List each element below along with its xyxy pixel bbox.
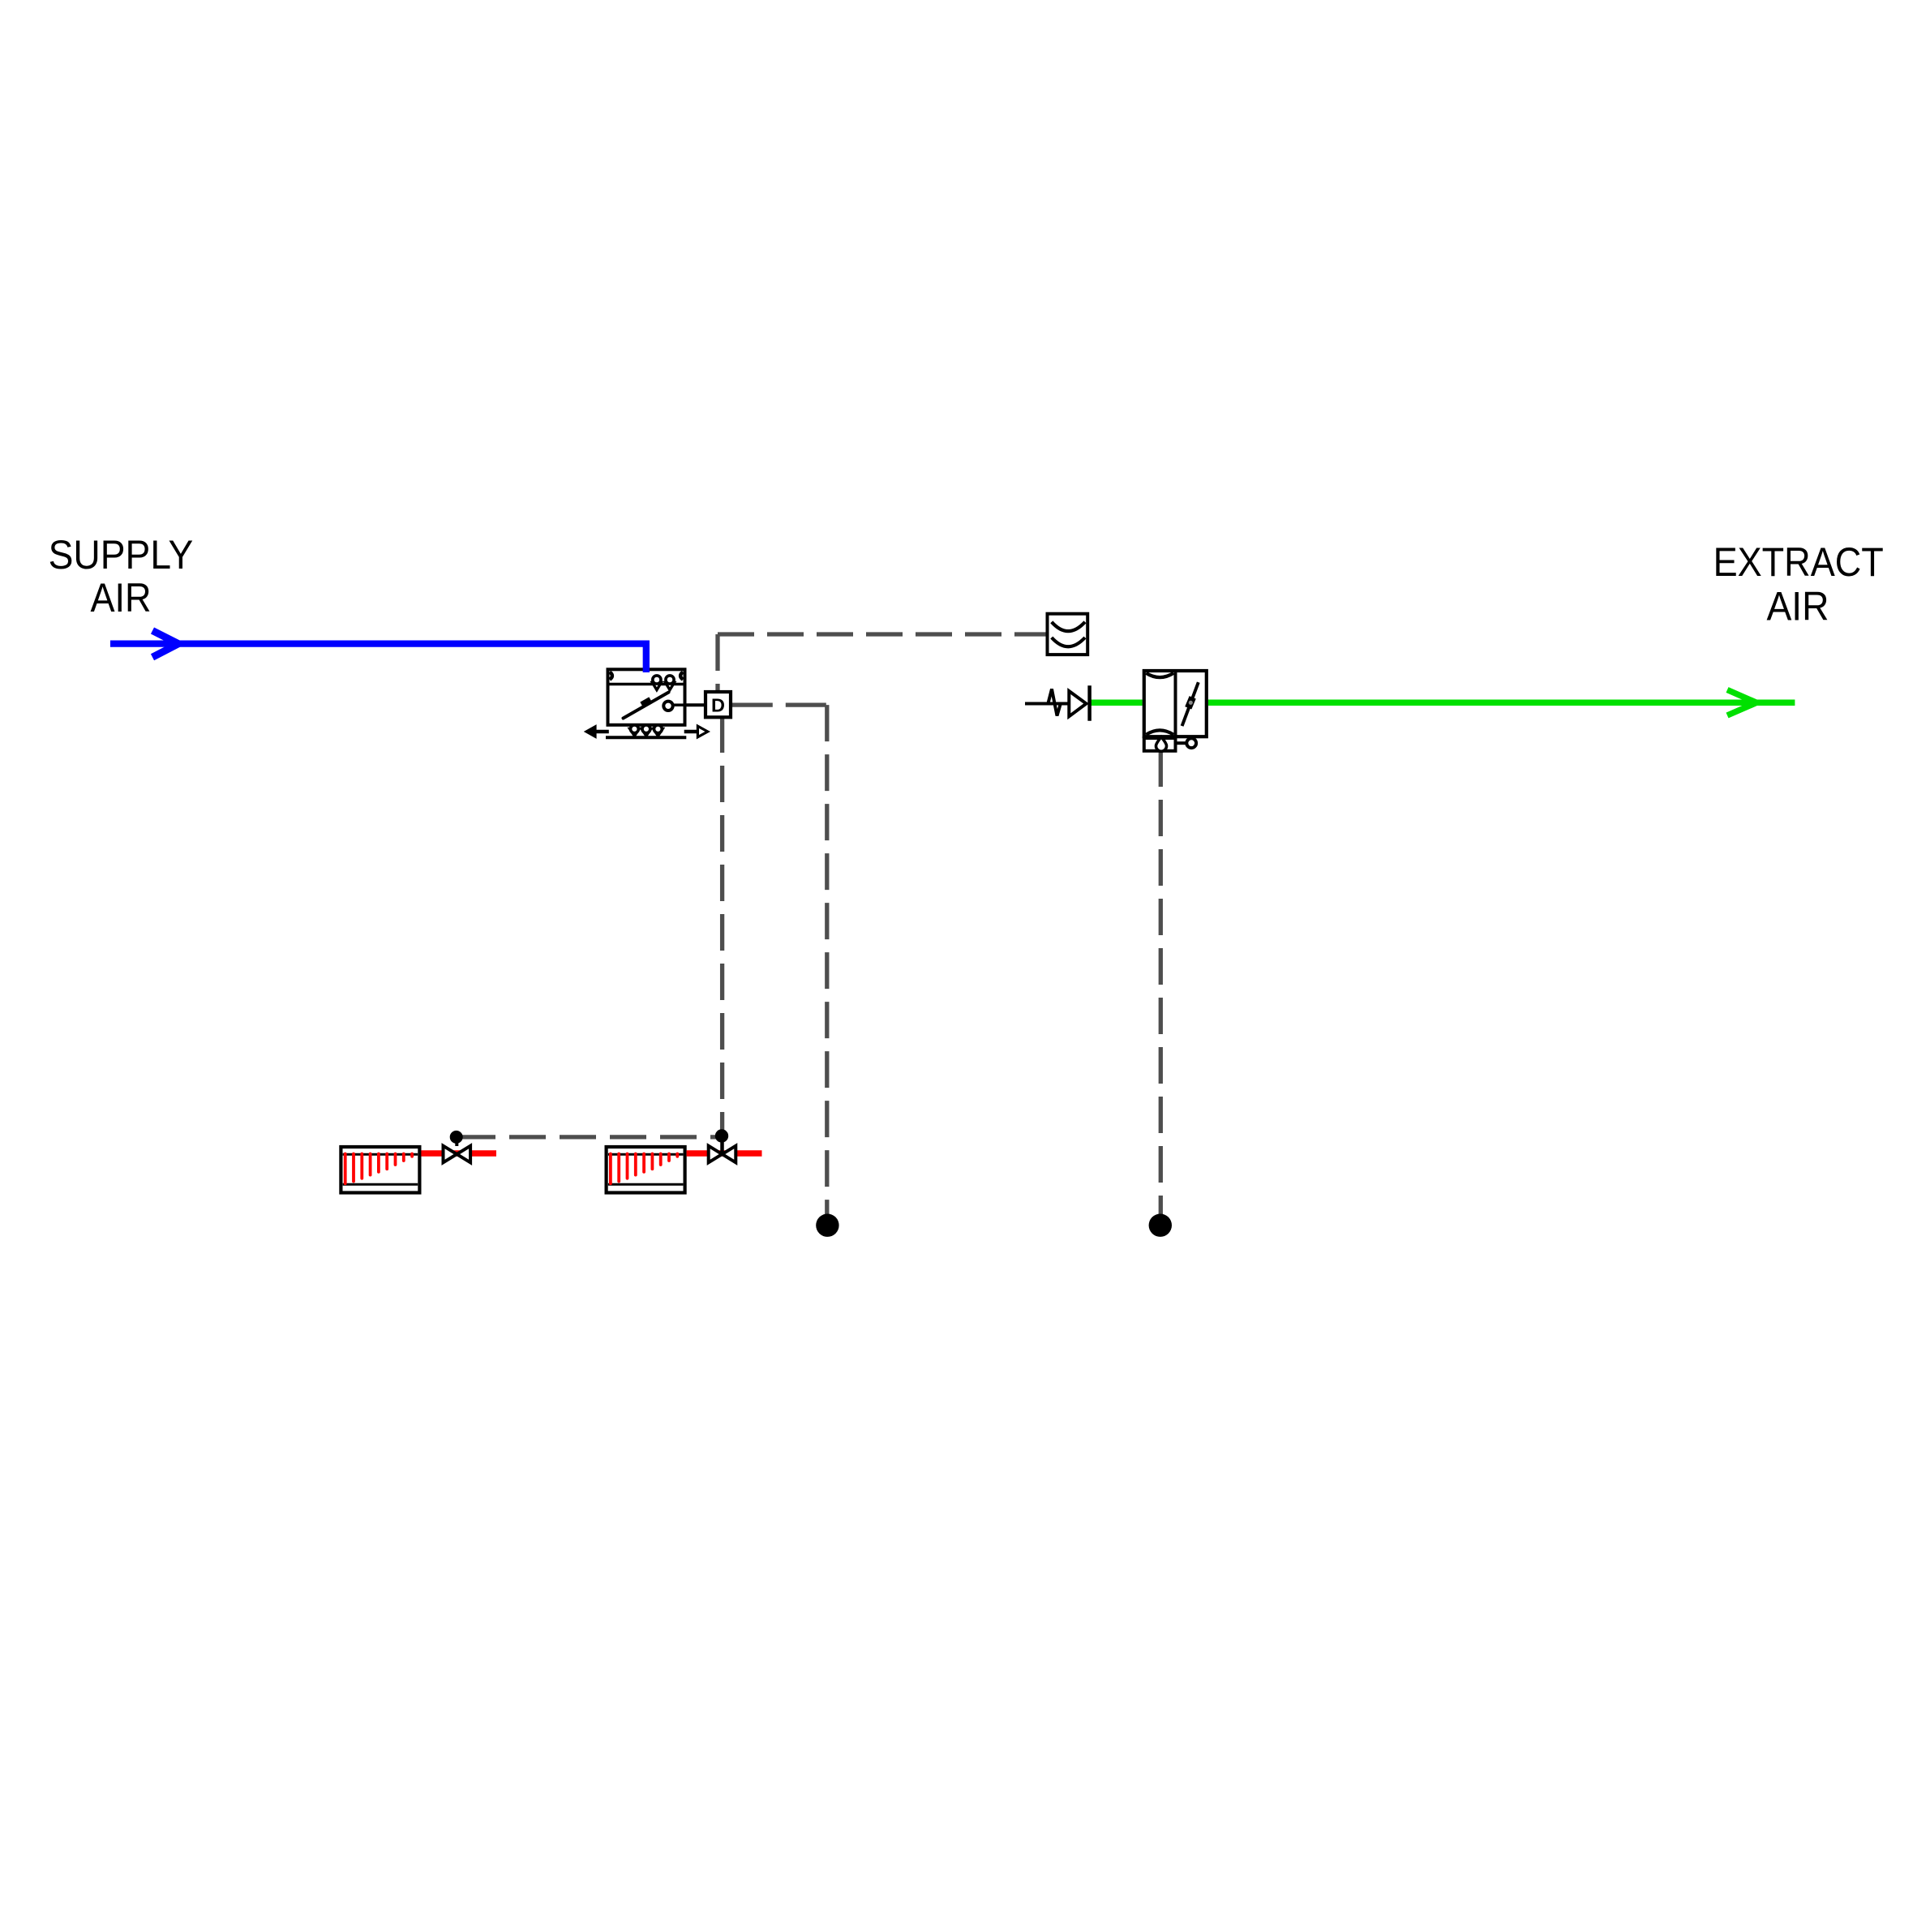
- radiator valve V1: [444, 1131, 471, 1162]
- svg-text:SUPPLY: SUPPLY: [49, 532, 194, 577]
- node B: room sensor junction dot: [1149, 1214, 1172, 1237]
- VAV box: nozzle pin 1 in top band: [652, 683, 661, 690]
- extract fan/damper unit: [1144, 669, 1207, 738]
- label: SUPPLY AIR: [49, 532, 194, 620]
- pressure sensor box (curves): [1048, 614, 1088, 655]
- extract unit: left cell top arc: [1146, 673, 1173, 677]
- VAV box: damper lever: [624, 693, 669, 719]
- D controller box: [706, 692, 731, 717]
- check valve: flap triangle: [1069, 691, 1086, 716]
- wire: dashed control line from D controller bottom down to radiator valve V2: [720, 716, 724, 1141]
- extract unit: condensate droplet: [1156, 737, 1167, 752]
- svg-text:EXTRACT: EXTRACT: [1713, 539, 1884, 585]
- wire: dashed control line between radiator valve actuator dots: [459, 1135, 718, 1139]
- radiator 2 fins (red): [611, 1154, 677, 1184]
- check valve: seat bar: [1087, 685, 1092, 721]
- VAV box: slide rail line below diffusers: [606, 736, 686, 739]
- radiator 2 body: [607, 1147, 685, 1193]
- VAV box: top band divider: [610, 683, 685, 686]
- wire: dashed control line elbow down into D controller top: [715, 634, 719, 694]
- svg-text:AIR: AIR: [1766, 583, 1829, 629]
- VAV box: bottom diffuser pin 3: [654, 729, 663, 736]
- extract unit: link to status ring: [1176, 741, 1186, 745]
- svg-text:AIR: AIR: [90, 575, 151, 620]
- VAV box: damper pivot ring: [663, 702, 672, 711]
- radiator 1 body: [341, 1147, 419, 1193]
- svg-text:D: D: [711, 694, 725, 715]
- VAV box: bottom diffuser pin 2: [641, 729, 651, 736]
- VAV box: right slot arc: [680, 672, 683, 680]
- extract unit: left cell bottom arc: [1146, 730, 1173, 734]
- supply air flow arrow chevron: [152, 631, 178, 658]
- extract unit: status ring: [1186, 738, 1196, 748]
- wire: supply air duct line (blue): [110, 644, 646, 672]
- extract unit: condensate box: [1144, 738, 1176, 751]
- VAV box: left slot arc: [610, 672, 612, 680]
- wire: dashed control line from damper controller elbow to pressure sensor: [718, 632, 1046, 636]
- VAV box: bottom diffuser pin 1: [630, 729, 640, 736]
- radiator 2 hot water pipe (red): [687, 1150, 762, 1156]
- wire: extract air duct line (green) short segment into unit: [1091, 700, 1143, 706]
- wire: extract air duct line (green) main run: [1208, 700, 1795, 706]
- VAV box: right travel arrow: [684, 726, 708, 737]
- extract unit: divider: [1174, 669, 1177, 738]
- wire: dashed control line from extract unit condensate box down to node B: [1159, 750, 1163, 1214]
- wire: dashed control line from D controller right to room sensor node elbow: [732, 702, 827, 706]
- VAV box: nozzle pin 2 in top band: [666, 683, 675, 690]
- wire: black link from VAV box to D controller: [687, 703, 705, 706]
- extract air flow arrow chevron: [1727, 690, 1756, 716]
- VAV box: damper blade thick section: [642, 700, 651, 705]
- radiator 1 hot water pipe (red): [421, 1150, 496, 1156]
- node A: room sensor junction dot: [816, 1214, 838, 1237]
- radiator 1 fins (red): [345, 1154, 412, 1184]
- wire: dashed control line down to room temperature sensor node A: [825, 705, 829, 1214]
- VAV box: left travel arrow: [585, 726, 609, 737]
- VAV box: pivot link to right wall: [673, 703, 685, 706]
- VAV supply air terminal box: [608, 669, 686, 725]
- radiator valve V2: [709, 1129, 736, 1162]
- label: EXTRACT AIR: [1713, 539, 1884, 629]
- check valve: spring zigzag: [1049, 689, 1061, 716]
- check valve: inlet line: [1025, 702, 1069, 706]
- extract unit: damper blade: [1182, 682, 1199, 726]
